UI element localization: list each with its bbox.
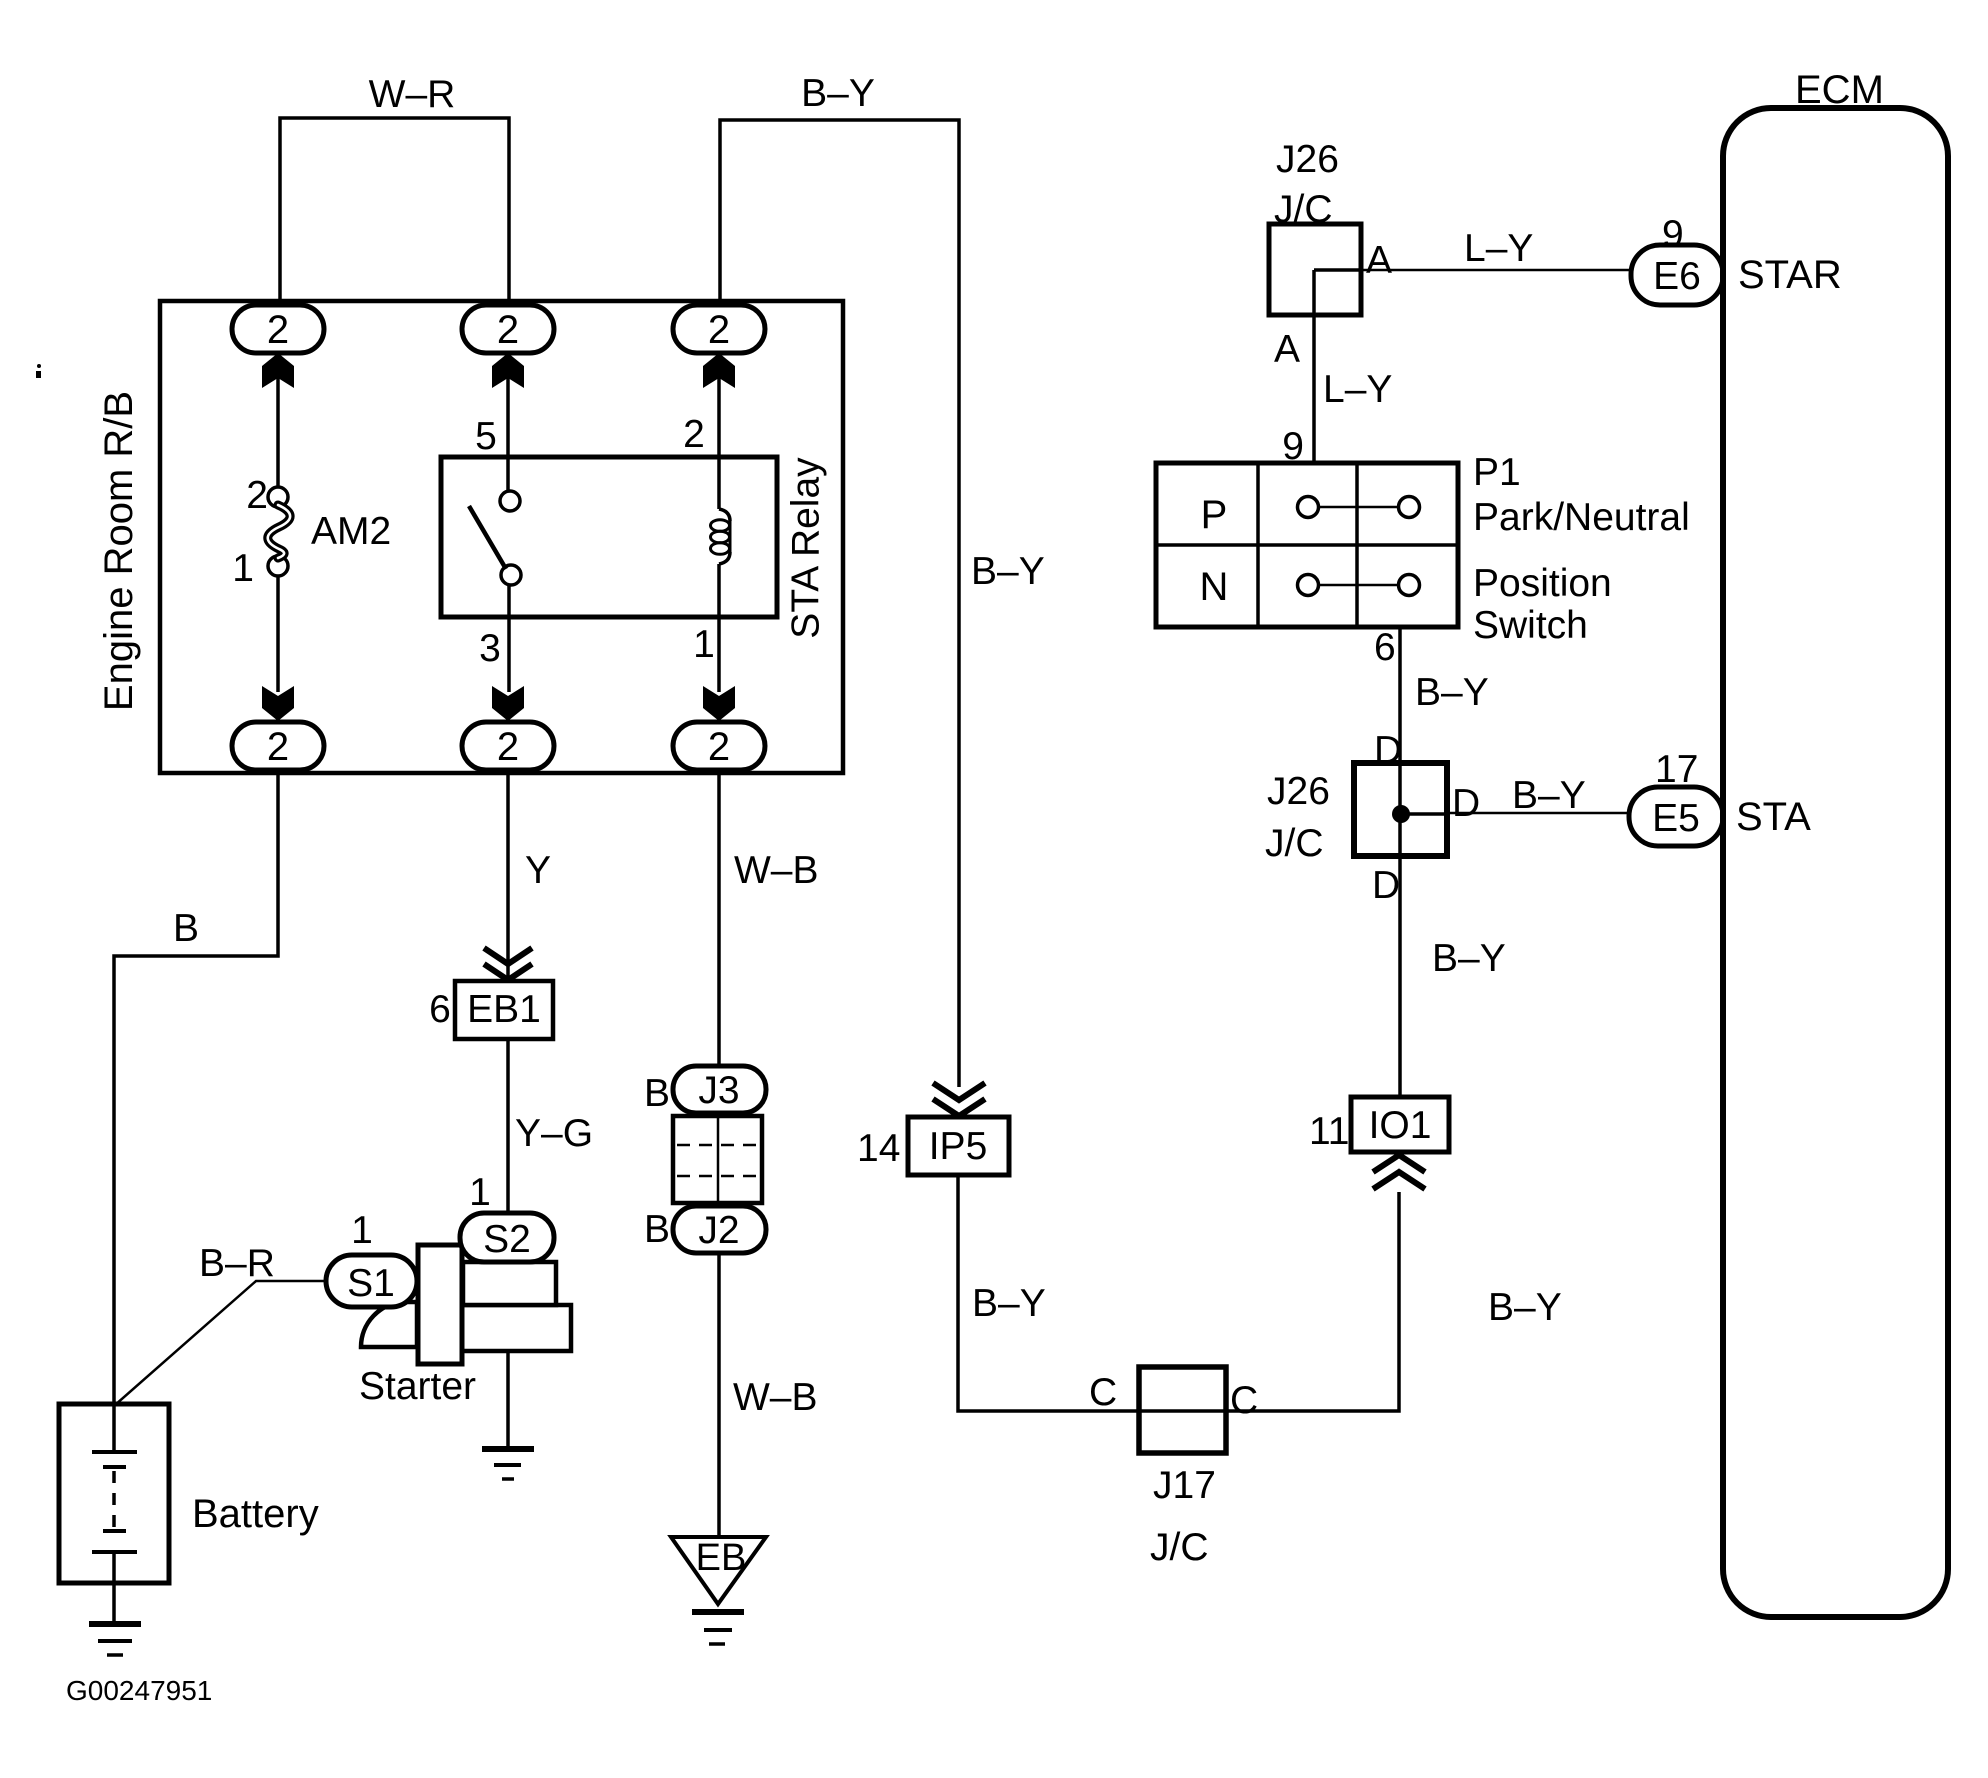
svg-text:2: 2: [497, 308, 519, 352]
up arrow pin2 left: [262, 353, 294, 388]
svg-text:2: 2: [246, 474, 268, 517]
connector IP5: [908, 1117, 1009, 1175]
svg-text:Position: Position: [1473, 562, 1612, 605]
svg-text:S2: S2: [483, 1218, 531, 1261]
connector oval 2 bottom-left: [232, 722, 324, 770]
svg-text:Battery: Battery: [192, 1492, 319, 1536]
svg-text:C: C: [1089, 1371, 1117, 1414]
connector EB1: [455, 981, 553, 1039]
svg-text:2: 2: [267, 308, 289, 352]
ground triangle EB: [671, 1537, 766, 1604]
svg-text:B: B: [173, 907, 199, 950]
wire fuse column inside box: [276, 353, 280, 487]
svg-text:2: 2: [497, 725, 519, 769]
svg-text:1: 1: [693, 623, 715, 666]
svg-text:B: B: [644, 1072, 670, 1115]
svg-text:B–Y: B–Y: [971, 550, 1045, 593]
wire B from box to battery: [114, 770, 278, 1406]
svg-text:IO1: IO1: [1369, 1104, 1432, 1147]
relay coil: [711, 509, 731, 564]
wire relay switch column: [506, 353, 510, 491]
wire W-B from J2 to EB ground: [717, 1253, 721, 1537]
scan speck artifact: [36, 364, 41, 378]
svg-text:A: A: [1274, 328, 1300, 371]
svg-text:2: 2: [708, 725, 730, 769]
svg-text:L–Y: L–Y: [1323, 368, 1392, 411]
wire B-R from battery to starter S1: [115, 1281, 326, 1405]
svg-text:E6: E6: [1653, 255, 1701, 298]
junction J26 upper box: [1269, 224, 1361, 315]
wire W-R loop from Engine Room R/B pin2 to pin2: [280, 118, 509, 303]
connector oval 2 top-mid: [462, 305, 554, 353]
svg-text:Y–G: Y–G: [515, 1112, 593, 1155]
Engine Room R/B box: [160, 301, 843, 773]
down arrow pin2 left-bottom: [262, 686, 294, 721]
junction J26 lower box: [1354, 763, 1447, 856]
svg-text:B–R: B–R: [199, 1242, 275, 1285]
svg-text:1: 1: [351, 1209, 373, 1252]
relay STA box: [441, 457, 777, 617]
svg-text:J17: J17: [1153, 1464, 1216, 1507]
svg-text:W–B: W–B: [734, 849, 819, 892]
svg-text:P1: P1: [1473, 451, 1521, 494]
ground symbol below battery: [89, 1624, 141, 1655]
svg-text:N: N: [1200, 565, 1229, 609]
connector oval 2 bottom-right: [673, 722, 765, 770]
starter solenoid block: [418, 1245, 462, 1364]
svg-text:STA Relay: STA Relay: [785, 457, 828, 639]
wire B-Y from IP5 to J17: [958, 1175, 1139, 1411]
svg-text:5: 5: [475, 415, 497, 458]
svg-text:AM2: AM2: [311, 510, 391, 553]
svg-text:STAR: STAR: [1738, 253, 1842, 297]
battery internal plates: [92, 1406, 137, 1622]
wire W-B from box to J3: [717, 770, 721, 1068]
svg-text:J26: J26: [1267, 770, 1330, 813]
connector IO1: [1351, 1097, 1449, 1152]
svg-text:Park/Neutral: Park/Neutral: [1473, 496, 1690, 539]
connector S1: [326, 1255, 417, 1307]
svg-text:2: 2: [267, 725, 289, 769]
relay switch contacts: [469, 491, 521, 585]
svg-text:A: A: [1366, 239, 1392, 282]
svg-text:3: 3: [479, 627, 501, 670]
svg-text:EB: EB: [696, 1537, 747, 1579]
junction J17 box: [1139, 1367, 1226, 1453]
svg-text:6: 6: [429, 988, 451, 1031]
svg-text:W–R: W–R: [369, 73, 456, 116]
wire B-Y from J26 dot to E5: [1447, 812, 1630, 815]
connector oval 2 bottom-mid: [462, 722, 554, 770]
Park/Neutral Position Switch box P1: [1156, 463, 1458, 627]
up arrow pin5: [492, 353, 524, 388]
svg-text:B–Y: B–Y: [801, 72, 875, 115]
svg-text:D: D: [1374, 729, 1402, 772]
connector chevrons into EB1: [484, 948, 532, 980]
ground symbol below EB: [692, 1612, 744, 1644]
svg-text:J/C: J/C: [1274, 188, 1333, 231]
svg-text:B–Y: B–Y: [1512, 774, 1586, 817]
wire from J17 to IO1: [1226, 1192, 1399, 1411]
svg-text:STA: STA: [1736, 795, 1811, 839]
ECM box: [1723, 108, 1948, 1617]
connector oval 2 top-right: [673, 305, 765, 353]
svg-text:J3: J3: [698, 1069, 739, 1112]
svg-text:D: D: [1372, 864, 1400, 907]
down arrow pin3: [492, 686, 524, 721]
starter upper block: [463, 1262, 556, 1305]
starter pinion hook: [361, 1302, 417, 1347]
switch contacts row N: [1298, 575, 1420, 596]
wire B-Y loop from Engine Room R/B pin2 down right side to IP5: [720, 120, 959, 1087]
connector chevrons into IP5: [933, 1083, 985, 1116]
battery box: [59, 1404, 169, 1583]
wire P1 pin6 down to J26: [1398, 629, 1402, 763]
svg-text:J/C: J/C: [1265, 822, 1324, 865]
svg-text:Switch: Switch: [1473, 604, 1588, 647]
svg-text:Starter: Starter: [359, 1365, 476, 1408]
starter motor body wide block: [460, 1305, 571, 1351]
junction dot J26: [1392, 805, 1410, 823]
svg-text:Y: Y: [525, 849, 551, 892]
svg-text:Engine Room R/B: Engine Room R/B: [97, 391, 141, 711]
wire Y-G from EB1 to S2: [506, 1039, 510, 1215]
down arrow pin1: [703, 686, 735, 721]
wire relay coil column: [717, 353, 721, 509]
svg-text:11: 11: [1309, 1110, 1350, 1153]
svg-text:J2: J2: [698, 1209, 739, 1252]
svg-text:6: 6: [1374, 626, 1396, 669]
svg-text:E5: E5: [1652, 797, 1700, 840]
svg-text:B: B: [644, 1208, 670, 1251]
svg-text:1: 1: [469, 1171, 491, 1214]
svg-text:J26: J26: [1276, 138, 1339, 181]
svg-text:S1: S1: [347, 1262, 395, 1305]
wire Y from box to EB1: [506, 770, 510, 979]
svg-text:B–Y: B–Y: [972, 1282, 1046, 1325]
svg-text:EB1: EB1: [467, 988, 541, 1031]
connector S2: [460, 1213, 554, 1262]
svg-text:1: 1: [232, 547, 254, 590]
svg-text:2: 2: [683, 413, 705, 456]
wire L-Y from J26 upper to E6: [1361, 269, 1631, 272]
ground symbol below starter: [482, 1449, 534, 1479]
connector J3: [673, 1066, 766, 1113]
svg-text:P: P: [1201, 493, 1228, 537]
svg-text:G00247951: G00247951: [66, 1675, 212, 1706]
connector chevrons into IO1: [1373, 1155, 1425, 1189]
svg-text:D: D: [1452, 782, 1480, 825]
svg-text:2: 2: [708, 308, 730, 352]
wire starter to ground: [506, 1351, 510, 1449]
wire L-Y from J26 upper to P1 pin9: [1312, 315, 1316, 463]
svg-text:B–Y: B–Y: [1415, 671, 1489, 714]
svg-text:J/C: J/C: [1150, 1526, 1209, 1569]
svg-text:L–Y: L–Y: [1464, 227, 1533, 270]
switch contacts row P: [1298, 497, 1420, 518]
svg-text:9: 9: [1282, 425, 1304, 468]
connector J2: [673, 1206, 766, 1253]
svg-text:W–B: W–B: [733, 1376, 818, 1419]
svg-text:IP5: IP5: [929, 1125, 988, 1168]
connector E5: [1629, 787, 1723, 846]
junction block between J3 and J2: [673, 1116, 762, 1203]
connector E6: [1631, 245, 1723, 305]
svg-text:ECM: ECM: [1795, 68, 1884, 112]
fuse AM2: [268, 487, 290, 576]
connector oval 2 top-left: [232, 305, 324, 353]
svg-text:C: C: [1230, 1379, 1258, 1422]
svg-text:B–Y: B–Y: [1432, 937, 1506, 980]
svg-text:14: 14: [857, 1127, 900, 1170]
wire B-Y from IO1 up to J26: [1398, 856, 1402, 1097]
svg-text:B–Y: B–Y: [1488, 1286, 1562, 1329]
up arrow pin2 right: [703, 353, 735, 388]
